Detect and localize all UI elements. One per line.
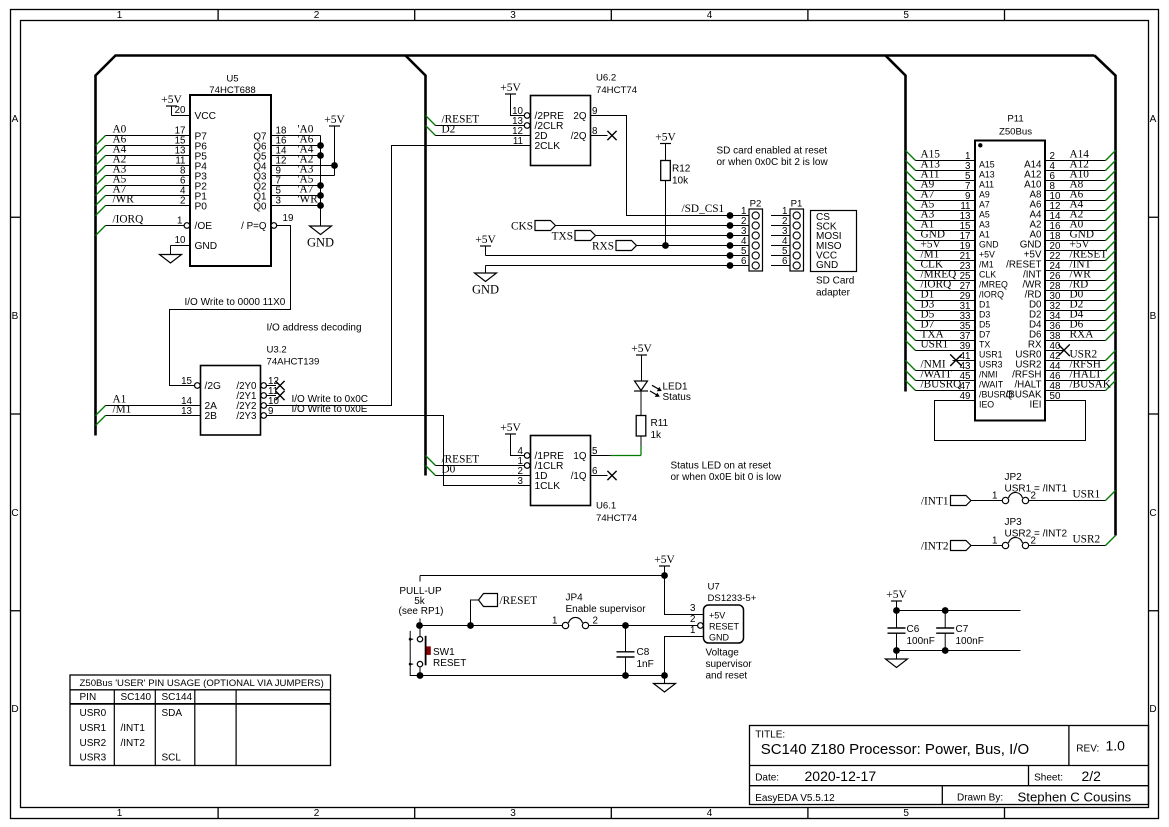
wire A6 to P11 pin 10 — [1045, 188, 1116, 202]
svg-text:DS1233-5+: DS1233-5+ — [708, 593, 757, 604]
svg-text:1k: 1k — [651, 430, 663, 441]
svg-text:A: A — [12, 114, 19, 125]
wire RXA to P11 pin 38 — [1045, 328, 1116, 342]
svg-text:6: 6 — [592, 466, 598, 477]
+5V flag top of reset circuit — [654, 554, 675, 576]
svg-text:U3.2: U3.2 — [267, 345, 287, 356]
wire /NMI to P11 pin 43 — [906, 358, 976, 372]
svg-text:A13: A13 — [979, 170, 995, 180]
svg-text:I/O Write to 0000 11X0: I/O Write to 0000 11X0 — [185, 297, 286, 308]
svg-text:Voltage: Voltage — [706, 648, 740, 659]
svg-text:P0: P0 — [195, 201, 208, 212]
svg-text:1: 1 — [552, 616, 557, 627]
svg-text:C: C — [1149, 508, 1156, 519]
wire I/O Write to 0x0E from /2Y3 to U6.1 1CLK — [261, 404, 531, 486]
wire CLK to P11 pin 23 — [906, 258, 976, 272]
svg-text:C8: C8 — [637, 647, 650, 658]
U6.2 pin 8 /2Q no-connect — [591, 126, 617, 140]
wire GND to P11 pin 18 — [1045, 228, 1116, 242]
wire A2 to U5 pin 11 — [96, 153, 191, 175]
wire A0 to P11 pin 16 — [1045, 218, 1116, 232]
svg-text:15: 15 — [181, 376, 192, 387]
svg-text:A5: A5 — [979, 210, 990, 220]
svg-text:D: D — [11, 704, 18, 715]
svg-text:/BUSRQ: /BUSRQ — [921, 378, 962, 390]
svg-text:REV:: REV: — [1076, 744, 1099, 755]
svg-text:/IORQ: /IORQ — [979, 290, 1004, 300]
wire A7 to U5 pin 4 — [96, 183, 191, 205]
resistor R11 1k — [636, 416, 668, 442]
svg-text:USR2 = /INT2: USR2 = /INT2 — [1005, 529, 1068, 540]
svg-text:(see RP1): (see RP1) — [398, 606, 443, 617]
svg-text:1: 1 — [992, 491, 997, 502]
svg-text:GND: GND — [816, 260, 838, 271]
svg-text:5: 5 — [903, 10, 909, 21]
wire /WAIT to P11 pin 45 — [906, 368, 976, 382]
svg-text:USR1: USR1 — [80, 723, 107, 734]
svg-text:Enable supervisor: Enable supervisor — [566, 604, 647, 615]
wire A14 to P11 pin 2 — [1045, 148, 1116, 162]
wire U5 pin 3 net 'WR — [271, 193, 321, 206]
svg-text:supervisor: supervisor — [706, 659, 753, 670]
wire A13 to P11 pin 3 — [906, 158, 976, 172]
svg-text:PIN: PIN — [80, 692, 97, 703]
pull-up annotation — [398, 586, 443, 617]
svg-text:1: 1 — [117, 808, 123, 819]
svg-text:/OE: /OE — [195, 221, 213, 232]
GND flag to SD GND line — [472, 266, 730, 297]
port flag /RESET — [467, 594, 537, 629]
svg-text:100nF: 100nF — [956, 636, 984, 647]
wire pull-down rail to GND for Q outputs — [307, 136, 334, 250]
svg-text:P2: P2 — [750, 199, 762, 210]
wire /M1 to P11 pin 21 — [906, 248, 976, 262]
svg-text:A15: A15 — [979, 160, 995, 170]
svg-text:1CLK: 1CLK — [535, 481, 561, 492]
wire U5 pin 12 net 'A2 — [271, 153, 335, 166]
+5V pull-up for 'A2 'A3 — [324, 114, 345, 176]
svg-text:A7: A7 — [979, 200, 990, 210]
port flag CKS — [511, 221, 730, 233]
svg-text:+5V: +5V — [886, 589, 907, 601]
wire /RESET to U6.2 pin 13 /2CLR — [426, 113, 530, 128]
svg-text:2B: 2B — [205, 411, 218, 422]
svg-text:1: 1 — [117, 10, 123, 21]
svg-text:JP2: JP2 — [1005, 472, 1023, 483]
svg-text:/1Q: /1Q — [571, 471, 587, 482]
svg-text:/SD_CS1: /SD_CS1 — [682, 203, 725, 215]
svg-text:U7: U7 — [708, 582, 720, 593]
flip-flop U6.2 74HCT74 body — [531, 73, 638, 166]
P11 pin 40 no-connect — [1045, 341, 1070, 356]
svg-text:Z50Bus: Z50Bus — [999, 127, 1032, 138]
svg-text:/M1: /M1 — [113, 403, 132, 415]
wire A1 to U3.2 pin 14 2A — [96, 393, 201, 415]
wire main reset row — [416, 622, 698, 629]
svg-text:/NMI: /NMI — [979, 370, 998, 380]
svg-text:/RESET: /RESET — [500, 595, 538, 607]
svg-text:CLK: CLK — [979, 270, 996, 280]
svg-text:+5V: +5V — [654, 554, 675, 566]
voltage supervisor U7 DS1233-5+ — [690, 582, 757, 644]
svg-text:1: 1 — [177, 216, 182, 227]
svg-text:USR2: USR2 — [80, 738, 107, 749]
svg-text:+5V: +5V — [979, 250, 995, 260]
svg-text:GND: GND — [195, 241, 218, 252]
svg-text:2: 2 — [690, 614, 695, 625]
svg-text:Date:: Date: — [755, 773, 779, 784]
svg-text:+5V: +5V — [500, 422, 521, 434]
wire D2 to P11 pin 32 — [1045, 298, 1116, 312]
wire USR1 from JP2 to bus — [1029, 488, 1116, 500]
svg-text:Drawn By:: Drawn By: — [957, 793, 1003, 804]
switch SW1 RESET — [409, 626, 467, 676]
svg-text:Q0: Q0 — [253, 201, 267, 212]
svg-text:D7: D7 — [979, 330, 990, 340]
svg-text:9: 9 — [268, 406, 273, 417]
wire TXA to P11 pin 37 — [906, 328, 976, 342]
svg-text:/BUSAK: /BUSAK — [1070, 378, 1112, 390]
svg-text:6: 6 — [741, 256, 747, 267]
svg-text:SDA: SDA — [162, 708, 183, 719]
svg-text:TX: TX — [979, 340, 990, 350]
wire +5V to P11 pin 19 — [906, 238, 976, 252]
wire A3 to P11 pin 13 — [906, 208, 976, 222]
svg-text:/INT2: /INT2 — [921, 541, 949, 553]
wire +5V to U7 pin 3 — [665, 576, 704, 615]
wire GND rail for caps — [893, 647, 1020, 654]
wire USR2 to P11 pin 42 — [1045, 348, 1116, 362]
wire D7 to P11 pin 35 — [906, 318, 976, 332]
svg-text:C7: C7 — [956, 624, 969, 635]
svg-text:I/O address decoding: I/O address decoding — [267, 323, 362, 334]
svg-text:JP3: JP3 — [1005, 517, 1023, 528]
svg-text:USR1: USR1 — [979, 350, 1003, 360]
wire D3 to P11 pin 31 — [906, 298, 976, 312]
wire U5 pin 14 net 'A4 — [271, 143, 321, 156]
note: Status LED on at reset — [671, 461, 782, 484]
svg-text:11: 11 — [513, 136, 523, 147]
wire /INT to P11 pin 24 — [1045, 258, 1116, 272]
svg-text:U6.2: U6.2 — [596, 73, 616, 84]
wire A0 to U5 pin 17 — [96, 123, 191, 145]
svg-text:IEI: IEI — [1030, 400, 1042, 411]
svg-text:20: 20 — [175, 105, 186, 116]
svg-text:6: 6 — [782, 256, 788, 267]
wire +5V rail for caps — [893, 607, 1020, 614]
wire U5 pin 16 net 'A6 — [271, 133, 321, 146]
svg-text:and reset: and reset — [706, 671, 748, 682]
svg-text:RESET: RESET — [709, 621, 740, 631]
wire /MREQ to P11 pin 25 — [906, 268, 976, 282]
svg-text:CKS: CKS — [511, 221, 533, 233]
wire A4 to U5 pin 13 — [96, 143, 191, 165]
svg-text:/INT1: /INT1 — [921, 496, 949, 508]
wire U6.2 2Q pin 9 to /SD_CS1 — [591, 106, 731, 216]
wire +5V to P11 pin 20 — [1045, 238, 1116, 252]
svg-text:/M1: /M1 — [979, 260, 994, 270]
U6.2 pin 10 /2PRE with +5V flag — [500, 82, 530, 118]
wire /RESET to P11 pin 22 — [1045, 248, 1116, 262]
svg-text:RXA: RXA — [1070, 328, 1095, 340]
wire /HALT to P11 pin 46 — [1045, 368, 1116, 382]
wire U5 pin 9 net 'A3 — [271, 163, 335, 176]
wire I/O Write to 0x0C from /2Y2 to U6.2 2CLK — [261, 146, 531, 409]
svg-text:SCL: SCL — [162, 753, 182, 764]
wire U6.1 1Q to R11 (green net) — [591, 436, 642, 458]
Z50Bus USER pin usage table — [70, 675, 331, 766]
svg-text:Z50Bus 'USER' PIN USAGE (OPTIO: Z50Bus 'USER' PIN USAGE (OPTIONAL VIA JU… — [80, 678, 324, 689]
svg-text:or when 0x0C bit 2 is low: or when 0x0C bit 2 is low — [717, 157, 829, 168]
svg-text:'WR: 'WR — [298, 193, 319, 205]
svg-text:2CLK: 2CLK — [535, 141, 561, 152]
wire U7 pin 1 GND to rail — [665, 625, 704, 676]
jumper JP3 — [992, 517, 1067, 549]
svg-text:+5V: +5V — [500, 82, 521, 94]
svg-text:D0: D0 — [442, 463, 456, 475]
svg-text:USR1 = /INT1: USR1 = /INT1 — [1005, 484, 1068, 495]
wire A5 to P11 pin 11 — [906, 198, 976, 212]
wire A9 to P11 pin 7 — [906, 178, 976, 192]
wire A8 to P11 pin 8 — [1045, 178, 1116, 192]
wire U5 pin 5 net 'A7 — [271, 183, 321, 196]
svg-text:Stephen C Cousins: Stephen C Cousins — [1018, 790, 1132, 805]
svg-text:/ P=Q: / P=Q — [241, 221, 267, 232]
wire bottom ground rail — [410, 671, 668, 678]
svg-text:TITLE:: TITLE: — [755, 730, 785, 741]
ground below C6 — [896, 651, 898, 660]
svg-text:+5V: +5V — [655, 132, 676, 144]
+5V flag to SD VCC line — [475, 234, 730, 256]
svg-text:C: C — [11, 508, 18, 519]
svg-text:2: 2 — [593, 616, 598, 627]
svg-text:USR2: USR2 — [1073, 533, 1101, 545]
wire A11 to P11 pin 5 — [906, 168, 976, 182]
wire /RFSH to P11 pin 44 — [1045, 358, 1116, 372]
U5 pin 19 /P=Q output wire to U3.2 /2G — [170, 213, 294, 386]
svg-text:USR3: USR3 — [80, 753, 107, 764]
svg-text:USR1: USR1 — [921, 338, 949, 350]
IC U5 74HCT688 comparator body — [190, 74, 271, 267]
title block — [750, 726, 1149, 805]
svg-text:A: A — [1150, 114, 1157, 125]
svg-text:C6: C6 — [907, 624, 920, 635]
svg-text:10: 10 — [175, 235, 186, 246]
svg-text:RESET: RESET — [433, 658, 466, 669]
svg-text:/WAIT: /WAIT — [979, 380, 1004, 390]
svg-text:IEO: IEO — [979, 400, 994, 410]
flip-flop U6.1 74HCT74 body — [531, 436, 638, 525]
wire A10 to P11 pin 6 — [1045, 168, 1116, 182]
svg-text:SD card enabled at reset: SD card enabled at reset — [717, 146, 828, 157]
svg-text:D2: D2 — [442, 123, 456, 135]
U6.1 pin 4 /1PRE with +5V flag — [500, 422, 530, 458]
svg-text:2Q: 2Q — [573, 111, 586, 122]
svg-text:D5: D5 — [979, 320, 990, 330]
port flag TXS — [552, 231, 730, 243]
wire A5 to U5 pin 6 — [96, 173, 191, 195]
svg-text:74HCT74: 74HCT74 — [596, 513, 638, 524]
svg-text:/WR: /WR — [113, 193, 135, 205]
svg-text:SC140 Z180 Processor: Power, B: SC140 Z180 Processor: Power, Bus, I/O — [761, 741, 1029, 758]
U5 pin 10 GND — [160, 235, 191, 263]
wire D0 to U6.1 pin 2 1D — [426, 463, 531, 477]
svg-text:5: 5 — [903, 808, 909, 819]
svg-text:P1: P1 — [791, 199, 803, 210]
port flag RXS — [592, 241, 730, 253]
wire D6 to P11 pin 36 — [1045, 318, 1116, 332]
svg-text:RXS: RXS — [592, 241, 614, 253]
svg-text:/2Q: /2Q — [571, 131, 587, 142]
P11 pin 41 no-connect — [950, 351, 975, 366]
svg-text:1nF: 1nF — [637, 659, 654, 670]
svg-text:A11: A11 — [979, 180, 994, 190]
svg-text:10k: 10k — [672, 176, 689, 187]
U6.1 pin 6 /1Q no-connect — [591, 466, 617, 480]
svg-text:2: 2 — [314, 808, 320, 819]
svg-text:4: 4 — [707, 10, 713, 21]
jumper JP2 — [992, 472, 1067, 504]
wire A12 to P11 pin 4 — [1045, 158, 1116, 172]
svg-text:1.0: 1.0 — [1106, 738, 1126, 754]
svg-text:U5: U5 — [226, 74, 238, 85]
wire A4 to P11 pin 12 — [1045, 198, 1116, 212]
svg-text:/INT1: /INT1 — [121, 723, 146, 734]
svg-text:5: 5 — [592, 446, 598, 457]
wire A1 to P11 pin 15 — [906, 218, 976, 232]
wire USR1 to P11 pin 39 — [906, 338, 976, 352]
svg-text:P11: P11 — [1007, 114, 1023, 125]
capacitor C8 1nF — [617, 626, 654, 676]
svg-text:EasyEDA V5.5.12: EasyEDA V5.5.12 — [755, 793, 835, 804]
svg-text:8: 8 — [592, 126, 598, 137]
svg-text:Sheet:: Sheet: — [1034, 773, 1063, 784]
junction dots at P2 pins — [727, 212, 734, 269]
svg-text:SW1: SW1 — [433, 647, 455, 658]
svg-text:74AHCT139: 74AHCT139 — [267, 357, 320, 368]
svg-text:2/2: 2/2 — [1082, 768, 1102, 784]
svg-text:3: 3 — [276, 196, 282, 207]
wire IEO to IEI loop — [935, 401, 1086, 441]
wire U5 pin 18 net 'A0 — [271, 123, 321, 136]
wire USR2 from JP3 to bus — [1029, 533, 1116, 545]
svg-text:/2Y3: /2Y3 — [236, 411, 257, 422]
svg-text:A1: A1 — [979, 230, 990, 240]
wire D5 to P11 pin 33 — [906, 308, 976, 322]
capacitor C7 100nF — [936, 611, 984, 651]
bus frame (address/data bus outline) — [96, 56, 1116, 536]
svg-text:SD Card: SD Card — [816, 276, 854, 287]
svg-text:D: D — [1149, 704, 1156, 715]
svg-text:or when 0x0E bit 0 is low: or when 0x0E bit 0 is low — [671, 472, 782, 483]
svg-text:3: 3 — [510, 808, 516, 819]
svg-text:/MREQ: /MREQ — [979, 280, 1008, 290]
wire A2 to P11 pin 14 — [1045, 208, 1116, 222]
wire /WR to P11 pin 26 — [1045, 268, 1116, 282]
P11 pin names inside — [979, 160, 1042, 411]
SD Card adapter box — [811, 211, 857, 299]
svg-text:3: 3 — [518, 476, 524, 487]
svg-text:Status: Status — [663, 392, 691, 403]
wire D4 to P11 pin 34 — [1045, 308, 1116, 322]
connector P2 header — [730, 199, 763, 272]
svg-text:A3: A3 — [979, 220, 990, 230]
wire A3 to U5 pin 8 — [96, 163, 191, 185]
wire /RD to P11 pin 28 — [1045, 278, 1116, 292]
svg-text:A9: A9 — [979, 190, 990, 200]
svg-text:Status LED on at reset: Status LED on at reset — [671, 461, 772, 472]
note: SD card enabled at reset — [717, 146, 829, 169]
svg-text:D3: D3 — [979, 310, 990, 320]
U3.2 74AHCT139 decoder body — [181, 323, 361, 436]
svg-text:/INT2: /INT2 — [121, 738, 146, 749]
svg-text:GND: GND — [979, 240, 999, 250]
svg-text:9: 9 — [592, 106, 597, 117]
svg-text:1Q: 1Q — [573, 451, 586, 462]
U3.2 outputs /2Y0 /2Y1 no-connect — [261, 376, 285, 400]
wire A6 to U5 pin 15 — [96, 133, 191, 155]
wire +5V rail (pull-up top) — [420, 572, 668, 625]
note: voltage supervisor and reset — [706, 648, 753, 682]
svg-text:74HCT688: 74HCT688 — [209, 85, 255, 96]
svg-text:+5V: +5V — [475, 234, 496, 246]
wire D1 to P11 pin 29 — [906, 288, 976, 302]
svg-text:B: B — [12, 311, 19, 322]
capacitor C6 100nF — [888, 611, 935, 651]
svg-text:U6.1: U6.1 — [596, 501, 616, 512]
svg-text:1: 1 — [992, 536, 997, 547]
svg-text:JP4: JP4 — [566, 593, 584, 604]
svg-text:VCC: VCC — [195, 111, 217, 122]
svg-text:+5V: +5V — [324, 114, 345, 126]
svg-text:USR0: USR0 — [80, 708, 107, 719]
svg-text:3: 3 — [690, 603, 696, 614]
wire /BUSRQ to P11 pin 47 — [906, 378, 976, 392]
svg-text:adapter: adapter — [816, 288, 851, 299]
svg-text:I/O Write to 0x0E: I/O Write to 0x0E — [292, 404, 368, 415]
wire /RESET to U6.1 pin 1 /1CLR — [426, 453, 530, 468]
svg-text:2: 2 — [180, 196, 185, 207]
svg-text:4: 4 — [707, 808, 713, 819]
U5 pin 20 VCC with +5V flag — [161, 94, 190, 116]
svg-text:2020-12-17: 2020-12-17 — [805, 768, 877, 784]
svg-text:/2G: /2G — [205, 381, 221, 392]
svg-text:R12: R12 — [672, 164, 691, 175]
wire A7 to P11 pin 9 — [906, 188, 976, 202]
svg-text:19: 19 — [283, 213, 294, 224]
svg-text:/IORQ: /IORQ — [113, 213, 144, 225]
svg-text:GND: GND — [307, 236, 334, 250]
wire /IORQ to P11 pin 27 — [906, 278, 976, 292]
svg-text:SC144: SC144 — [162, 692, 193, 703]
svg-text:USR3: USR3 — [979, 360, 1003, 370]
wire /M1 to U3.2 pin 13 2B — [96, 403, 201, 425]
svg-text:USR1: USR1 — [1073, 488, 1101, 500]
port flag /INT2 — [921, 541, 1002, 553]
ground below reset rail — [664, 676, 666, 684]
connector P1 header — [771, 199, 804, 272]
+5V flag for decoupling caps — [886, 589, 907, 611]
svg-text:R11: R11 — [651, 418, 669, 429]
wire /IORQ to U5 pin 1 /OE — [96, 213, 190, 235]
LED1 status LED with +5V — [631, 343, 691, 416]
wire D2 to U6.2 pin 12 2D — [426, 123, 531, 137]
wire /WR to U5 pin 2 — [96, 193, 191, 215]
port flag /INT1 — [921, 496, 1002, 508]
svg-text:+5V: +5V — [631, 343, 652, 355]
svg-text:GND: GND — [472, 283, 499, 297]
svg-text:D1: D1 — [979, 300, 990, 310]
